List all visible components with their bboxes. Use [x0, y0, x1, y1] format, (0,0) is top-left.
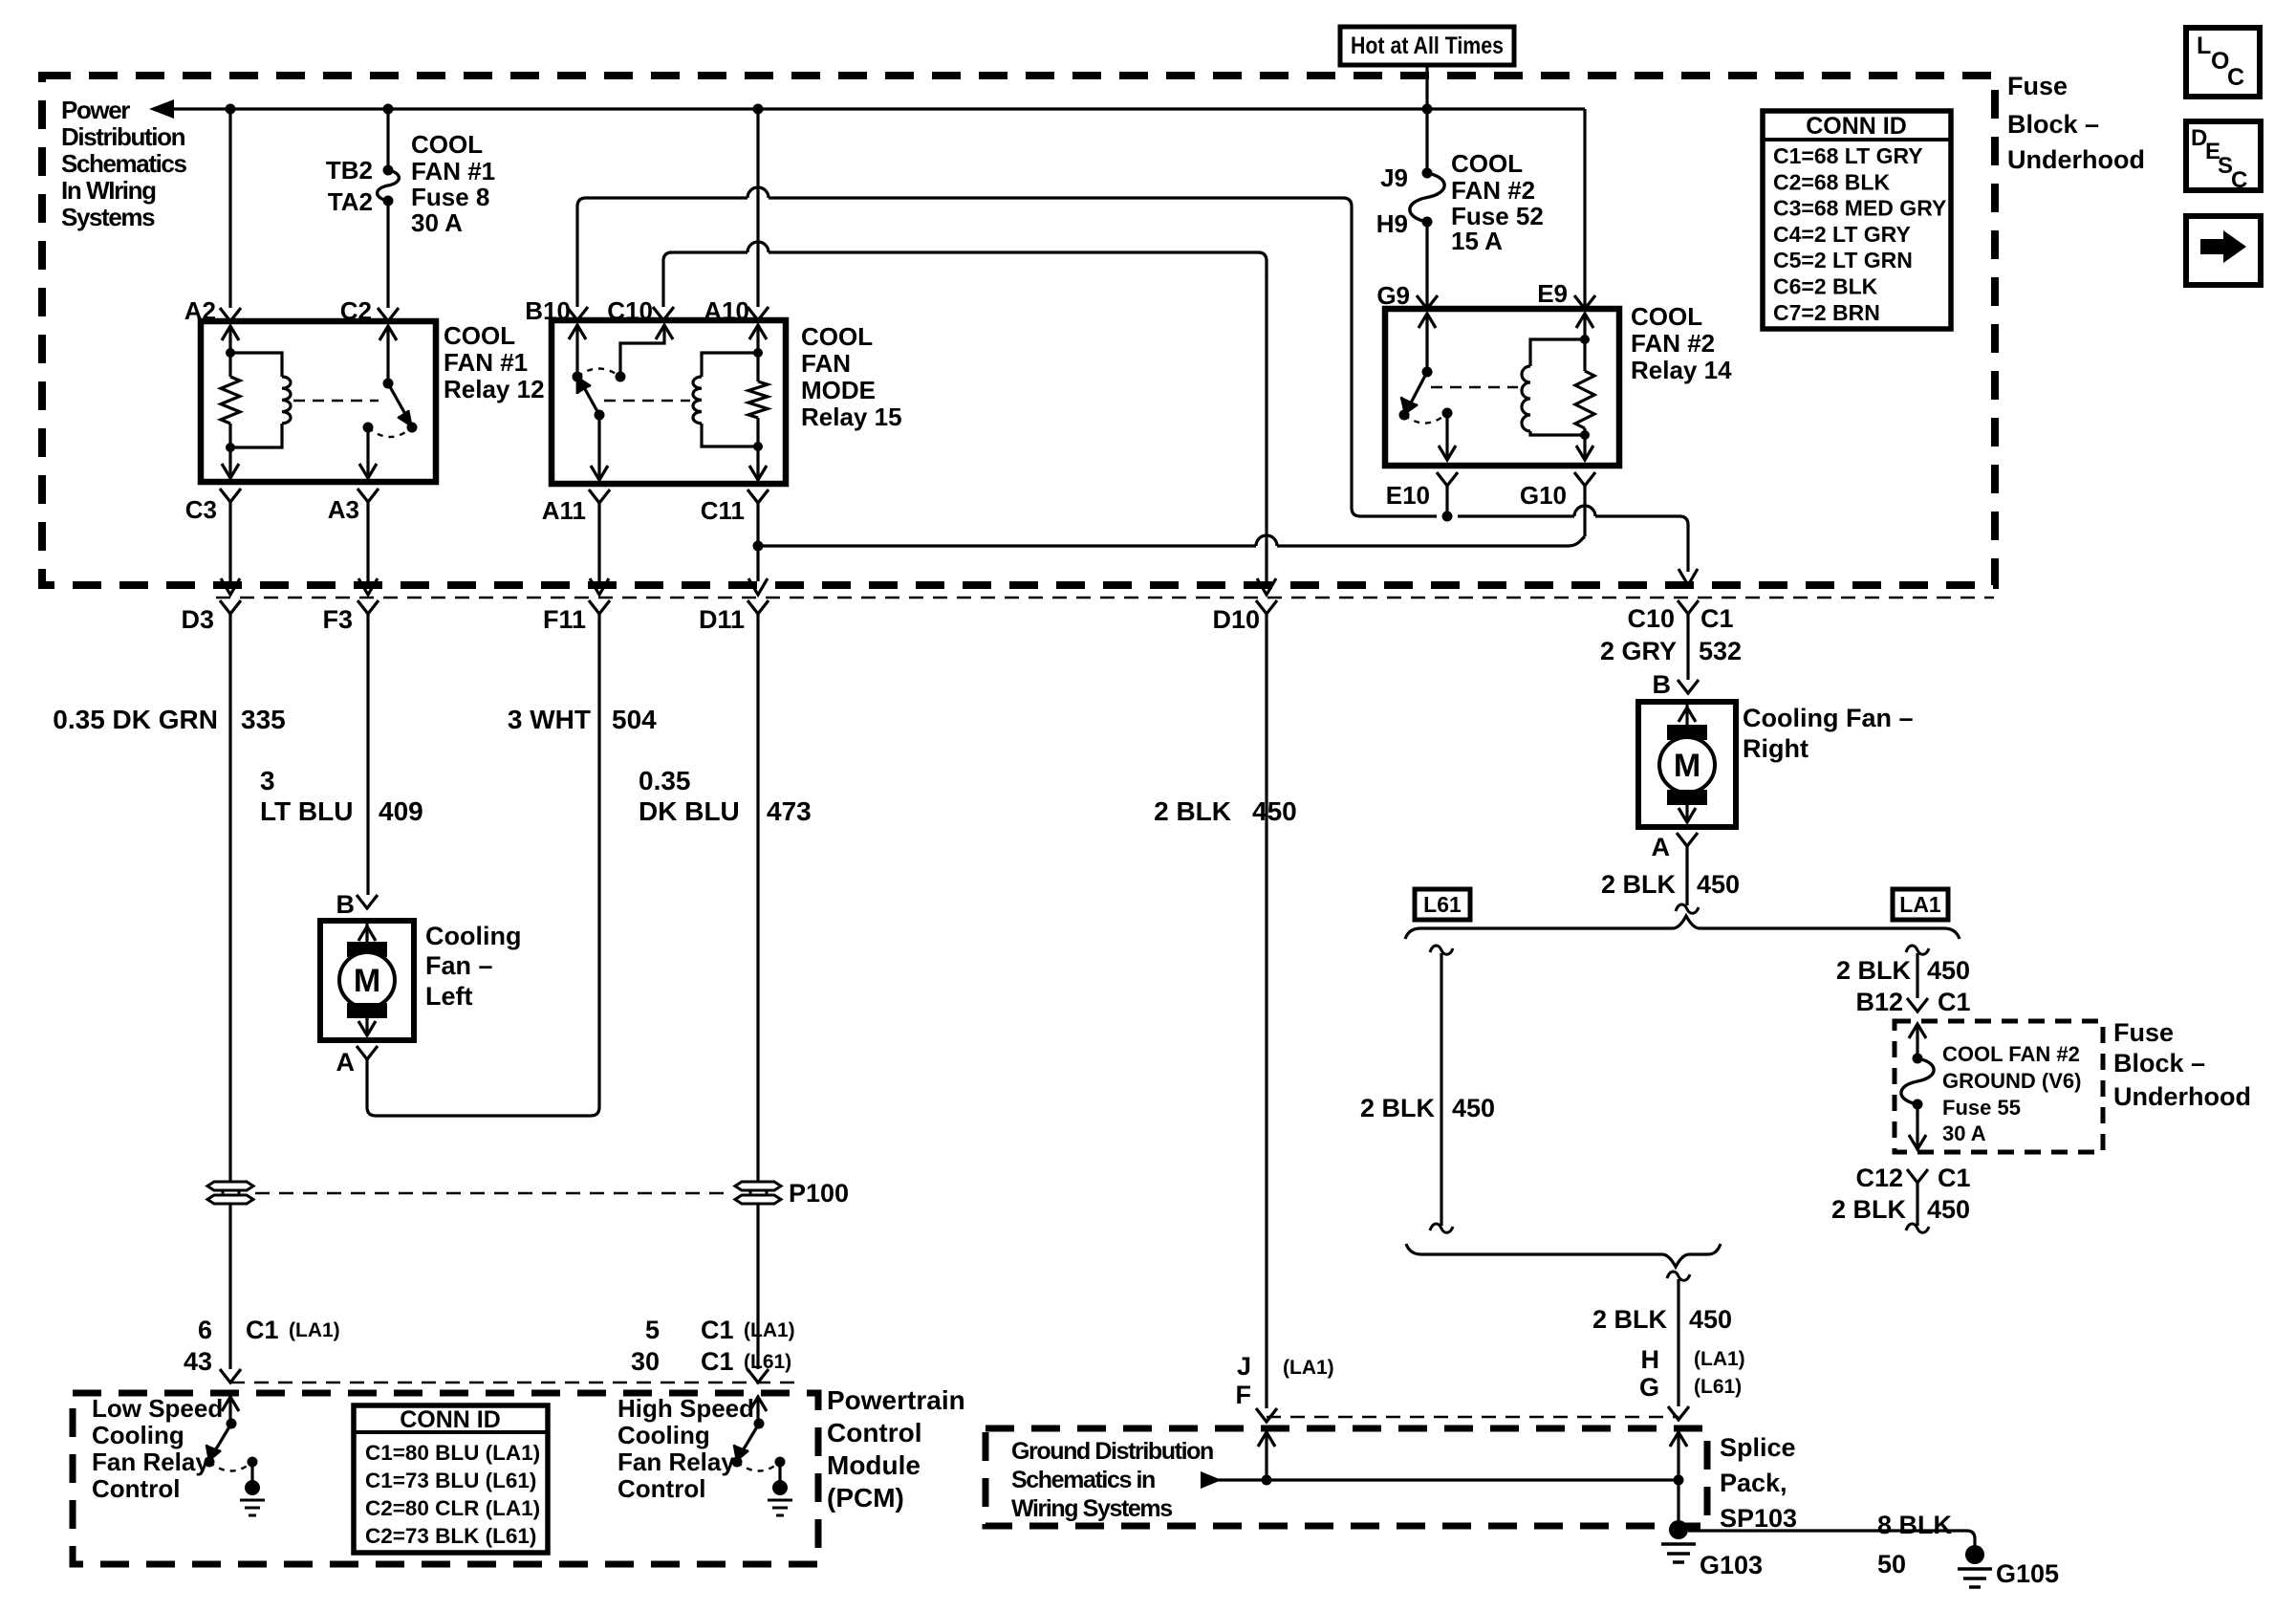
svg-text:B: B [336, 890, 356, 919]
label 2 BLK 450 splice [1592, 1305, 1732, 1334]
svg-text:473: 473 [767, 796, 812, 826]
svg-text:COOL: COOL [411, 130, 483, 159]
wire L61 branch [1440, 953, 1442, 1226]
svg-text:Schematics: Schematics [61, 149, 186, 178]
svg-text:C4=2 LT GRY: C4=2 LT GRY [1773, 222, 1911, 247]
svg-text:C: C [2231, 167, 2247, 193]
svg-text:2 BLK: 2 BLK [1836, 956, 1912, 985]
label B10 [525, 296, 571, 325]
label D10 [1212, 605, 1260, 634]
PCM high speed driver switch [732, 1397, 786, 1481]
wire fan left A to F11 [367, 613, 599, 1116]
svg-text:FAN #1: FAN #1 [444, 348, 528, 377]
svg-text:(PCM): (PCM) [827, 1483, 904, 1513]
svg-text:2 BLK: 2 BLK [1592, 1305, 1668, 1334]
wire C3 to D3 boundary [221, 502, 240, 595]
relay K15 switch common node B10 [573, 372, 583, 382]
label 2 BLK 450 fan right [1601, 870, 1740, 899]
wire D10 boundary [1257, 275, 1276, 595]
svg-text:504: 504 [612, 705, 657, 734]
svg-text:Control: Control [92, 1474, 180, 1503]
label G9 [1376, 281, 1410, 310]
svg-text:43: 43 [184, 1347, 212, 1376]
label Cooling Fan - Right [1743, 704, 1914, 763]
relay K14 coil top node [1580, 335, 1590, 344]
wire H9 to G9 [1425, 222, 1428, 307]
relay K15 pin C11 arrow [749, 446, 767, 480]
label P100 [789, 1179, 849, 1208]
harness squiggle fan right A [1676, 904, 1699, 913]
label A2 [184, 296, 216, 325]
connector fork B10 [567, 307, 588, 320]
wire P100 right to PCM 30 [756, 1204, 759, 1369]
relay K14 switch E10 node [1442, 408, 1453, 419]
connector fork fan left B [357, 895, 378, 908]
label TB2 [326, 156, 373, 185]
svg-text:Relay 15: Relay 15 [801, 403, 902, 431]
svg-text:C10: C10 [1627, 604, 1675, 633]
svg-text:G10: G10 [1520, 481, 1567, 510]
relay K12 mechanical link [293, 400, 379, 403]
label Low Speed Cooling Fan Relay Control [92, 1394, 223, 1503]
power bus wire [161, 107, 1585, 110]
label 0.35 DK BLU 473 [639, 766, 812, 826]
svg-text:Fuse: Fuse [2007, 72, 2068, 100]
wire LA1 branch to B12 [1916, 953, 1918, 998]
connector fork A3 [357, 489, 379, 502]
svg-text:M: M [354, 963, 380, 999]
label J [1237, 1352, 1251, 1381]
relay K14 coil [1522, 339, 1585, 435]
svg-text:D11: D11 [699, 605, 745, 634]
relay K14 mechanical link [1431, 386, 1518, 389]
relay K14 switch blade [1401, 372, 1427, 413]
svg-text:A11: A11 [542, 496, 586, 525]
connector fork fan left A [357, 1046, 378, 1059]
relay K15 pin A10 arrow [749, 325, 767, 353]
svg-text:B: B [1653, 670, 1672, 699]
svg-text:Cooling: Cooling [425, 922, 521, 950]
label H (LA1) [1641, 1345, 1745, 1374]
PCM connector boundary (thin dashed) [230, 1382, 799, 1383]
label C10 relay15 [607, 296, 653, 325]
connector fork C3 [220, 489, 241, 502]
connector fork E9 [1574, 295, 1595, 309]
svg-text:(LA1): (LA1) [1283, 1357, 1334, 1379]
svg-text:Low Speed: Low Speed [92, 1394, 223, 1423]
svg-text:(LA1): (LA1) [289, 1319, 340, 1341]
label B fan right [1653, 670, 1672, 699]
wire J F into ground box [1258, 1432, 1275, 1480]
fuse block connector boundary (thin dashed) [216, 597, 1994, 599]
motor fan left box [320, 921, 414, 1040]
relay K12 coil pin C3 arrow [222, 447, 239, 478]
svg-text:H: H [1641, 1345, 1660, 1374]
svg-text:Distribution: Distribution [61, 122, 185, 151]
svg-text:A3: A3 [328, 495, 359, 524]
svg-text:C7=2 BRN: C7=2 BRN [1773, 300, 1880, 325]
relay K12 switch blade [388, 383, 411, 425]
relay K14 switch common node [1422, 367, 1433, 378]
svg-text:L61: L61 [1423, 892, 1462, 917]
relay K12 coil top node [226, 348, 235, 358]
svg-text:J9: J9 [1380, 163, 1408, 192]
svg-text:A: A [336, 1048, 356, 1077]
connector fork C12 [1907, 1169, 1928, 1183]
wire bus to J9 [1425, 109, 1428, 173]
relay K12 box (COOL FAN #1 Relay 12) [201, 321, 436, 482]
svg-text:FAN #2: FAN #2 [1451, 176, 1535, 205]
svg-text:LT BLU: LT BLU [260, 796, 353, 826]
svg-text:C1: C1 [701, 1347, 734, 1376]
label High Speed Cooling Fan Relay Control [617, 1394, 754, 1503]
label 0.35 DK GRN 335 [53, 705, 285, 734]
relay K14 box (COOL FAN #2 Relay 14) [1385, 309, 1619, 466]
label Ground Distribution Schematics in Wiring Systems [1011, 1438, 1213, 1522]
ground G105 symbol [1958, 1545, 1992, 1587]
svg-text:F3: F3 [322, 605, 353, 634]
svg-text:C2=73 BLK (L61): C2=73 BLK (L61) [365, 1524, 536, 1548]
svg-text:Splice: Splice [1720, 1433, 1796, 1462]
svg-text:L: L [2197, 33, 2211, 59]
connector fork fan right B [1678, 680, 1699, 693]
svg-text:TB2: TB2 [326, 156, 373, 185]
harness squiggle LA1 bottom [1906, 1224, 1929, 1232]
connector fork C10 top [653, 307, 674, 320]
svg-text:C1: C1 [1938, 1164, 1971, 1192]
label G103 [1700, 1551, 1763, 1579]
label J9 [1380, 163, 1408, 192]
ground symbol PCM low speed [240, 1480, 265, 1515]
motor fan right box [1638, 702, 1736, 827]
wire bus to relay12 A2 [228, 109, 231, 308]
motor fan left symbol [339, 921, 395, 1035]
harness bracket bottom (underbrace) [1406, 1244, 1721, 1267]
relay K15 coil [693, 353, 758, 446]
svg-text:M: M [1674, 748, 1700, 784]
svg-text:Module: Module [827, 1450, 921, 1480]
wire F3 to fan left B [366, 613, 369, 895]
connector fork C11 [747, 490, 769, 503]
svg-text:2 BLK: 2 BLK [1360, 1094, 1436, 1122]
svg-text:D10: D10 [1212, 605, 1260, 634]
harness squiggle splice top [1667, 1272, 1690, 1280]
wire E10 to bus [1445, 486, 1448, 516]
svg-text:FAN: FAN [801, 349, 851, 378]
svg-text:450: 450 [1452, 1094, 1495, 1122]
connector fork A11 [589, 490, 610, 503]
wire G103 to G105 [1688, 1531, 1975, 1547]
junction node fuse52 bus [1422, 104, 1433, 115]
wire E10 bus to C1 drop [1458, 506, 1688, 572]
terminal fuse55 bottom dot [1913, 1099, 1923, 1110]
junction node C11 [753, 541, 764, 552]
svg-text:COOL: COOL [444, 321, 515, 350]
svg-text:8 BLK: 8 BLK [1877, 1511, 1953, 1539]
svg-text:A: A [1652, 833, 1671, 861]
svg-text:450: 450 [1697, 870, 1740, 899]
svg-text:Cooling Fan –: Cooling Fan – [1743, 704, 1914, 732]
svg-text:F11: F11 [543, 605, 586, 634]
label B12 C1 [1855, 988, 1970, 1016]
label A fan right [1652, 833, 1671, 861]
svg-text:0.35: 0.35 [639, 766, 691, 795]
ground G103 symbol [1661, 1520, 1696, 1562]
svg-text:450: 450 [1927, 956, 1970, 985]
connector fork G9 [1417, 295, 1438, 309]
wire fan right A down [1685, 846, 1688, 905]
relay K15 contact C10 path [620, 328, 664, 377]
connector fork A10 [747, 307, 769, 320]
svg-text:Left: Left [425, 982, 473, 1011]
tag L61 [1415, 889, 1470, 920]
wire splice pack feed [1677, 1279, 1679, 1406]
svg-text:DK BLU: DK BLU [639, 796, 740, 826]
label 3 LT BLU 409 [260, 766, 423, 826]
svg-text:50: 50 [1877, 1550, 1906, 1578]
wire bus to TB2 [386, 109, 389, 170]
svg-text:2 BLK: 2 BLK [1601, 870, 1677, 899]
label COOL FAN #2 GROUND fuse 55 [1942, 1042, 2081, 1145]
wire D3 to P100 [228, 613, 231, 1182]
junction node J F ground bus [1262, 1475, 1272, 1486]
fuse block label Fuse Block - Underhood [2007, 72, 2145, 174]
svg-text:Fuse 55: Fuse 55 [1942, 1096, 2021, 1120]
svg-text:COOL FAN #2: COOL FAN #2 [1942, 1042, 2080, 1066]
wire bus corner to E9 [1583, 109, 1586, 307]
label 3 WHT 504 [508, 705, 657, 734]
svg-text:C12: C12 [1855, 1164, 1903, 1192]
connector fork D3 [220, 600, 241, 614]
relay K15 coil top node [753, 348, 763, 358]
label (LA1) J F [1283, 1357, 1334, 1379]
relay K12 switch A3 node [363, 423, 374, 433]
label 43 [184, 1347, 212, 1376]
motor fan right symbol [1659, 702, 1715, 822]
svg-text:B10: B10 [525, 296, 571, 325]
svg-text:0.35 DK GRN: 0.35 DK GRN [53, 705, 218, 734]
svg-text:6: 6 [198, 1316, 212, 1344]
svg-text:C3=68 MED GRY: C3=68 MED GRY [1773, 196, 1946, 221]
svg-text:(LA1): (LA1) [1694, 1348, 1745, 1370]
wire C10 riser to D10 [663, 242, 1267, 307]
tag LA1 [1893, 889, 1948, 920]
svg-text:(L61): (L61) [1694, 1376, 1742, 1398]
label COOL FAN #1 Fuse 8 30 A [411, 130, 495, 237]
fuse F8 element [378, 170, 400, 201]
connector fork B12 [1907, 998, 1928, 1012]
svg-text:C1: C1 [1938, 988, 1971, 1016]
svg-text:C: C [2227, 64, 2244, 91]
svg-text:532: 532 [1699, 637, 1742, 665]
label C12 C1 [1855, 1164, 1970, 1192]
label COOL FAN #2 Fuse 52 15 A [1451, 149, 1544, 255]
CONN ID table (fuse block) [1763, 111, 1951, 329]
relay K14 switch pin G9 arrow [1419, 314, 1436, 372]
relay K12 resistor [221, 353, 240, 447]
relay K15 pin A11 arrow [591, 415, 608, 480]
svg-text:Pack,: Pack, [1720, 1469, 1787, 1497]
svg-text:409: 409 [379, 796, 423, 826]
label G105 [1996, 1559, 2059, 1588]
svg-text:Right: Right [1743, 734, 1809, 763]
svg-text:Block –: Block – [2113, 1049, 2205, 1078]
wire G10 down [1583, 486, 1586, 536]
connector fork PCM 43 [220, 1369, 241, 1382]
terminal fuse55 top dot [1913, 1054, 1923, 1064]
ground symbol PCM high speed [768, 1480, 792, 1515]
connector fork H G [1668, 1406, 1689, 1420]
svg-text:C5=2 LT GRN: C5=2 LT GRN [1773, 248, 1913, 272]
svg-text:3: 3 [260, 766, 275, 795]
relay K15 coil bottom node [753, 442, 763, 451]
label 30 C1 (L61) right [631, 1347, 791, 1376]
svg-text:Powertrain: Powertrain [827, 1385, 965, 1415]
hop G10 bus over D10 [1256, 535, 1277, 546]
connector fork J F [1256, 1408, 1277, 1422]
svg-text:C1: C1 [246, 1316, 279, 1344]
relay K12 label [444, 321, 545, 403]
relay K14 pin E10 arrow [1439, 413, 1456, 460]
svg-text:450: 450 [1252, 796, 1297, 826]
svg-text:2 BLK: 2 BLK [1154, 796, 1231, 826]
junction node E10 bus [1442, 512, 1453, 522]
wire C11 to D11 boundary [748, 503, 768, 595]
svg-text:Control: Control [617, 1474, 705, 1503]
relay K12 switch contact node [407, 423, 418, 433]
svg-text:CONN ID: CONN ID [400, 1406, 501, 1433]
svg-text:LA1: LA1 [1899, 892, 1941, 917]
relay K14 pin G10 arrow [1576, 435, 1593, 460]
label E9 [1537, 279, 1568, 308]
connector P100 right [735, 1182, 781, 1204]
svg-text:J: J [1237, 1352, 1251, 1381]
relay K14 label [1631, 302, 1732, 384]
svg-text:P100: P100 [789, 1179, 849, 1208]
harness squiggle LA1 top [1906, 946, 1929, 954]
label A10 [704, 296, 749, 325]
connector fork F3 [357, 600, 379, 614]
label Splice Pack SP103 [1720, 1433, 1797, 1533]
svg-text:E9: E9 [1537, 279, 1568, 308]
wire A10 riser [756, 109, 759, 307]
label D3 [181, 605, 214, 634]
svg-text:Power: Power [61, 96, 130, 124]
wire G10 bus to C11 [758, 536, 1585, 546]
label 6 C1 (LA1) left [198, 1316, 340, 1344]
svg-text:30 A: 30 A [1942, 1121, 1986, 1145]
svg-text:(LA1): (LA1) [744, 1319, 795, 1341]
harness bracket top (overbrace) [1405, 916, 1960, 939]
label 50 [1877, 1550, 1906, 1578]
svg-text:C10: C10 [607, 296, 653, 325]
svg-text:Block –: Block – [2007, 110, 2099, 139]
fuse F52 element [1410, 173, 1444, 222]
svg-text:Relay 12: Relay 12 [444, 375, 545, 403]
label Cooling Fan - Left [425, 922, 521, 1011]
label A3 [328, 495, 359, 524]
svg-text:C2=80 CLR (LA1): C2=80 CLR (LA1) [365, 1496, 540, 1520]
connector fork D11 [747, 600, 769, 614]
svg-text:CONN ID: CONN ID [1806, 113, 1907, 140]
terminal J9 dot [1422, 168, 1433, 179]
wire B10 riser to E10 bus [577, 187, 1437, 516]
svg-text:C1=80 BLU (LA1): C1=80 BLU (LA1) [365, 1441, 540, 1465]
svg-text:B12: B12 [1855, 988, 1903, 1016]
fuse F55 element [1901, 1058, 1934, 1104]
relay K12 coil [230, 353, 291, 447]
fuse F55 lower wire [1909, 1104, 1926, 1149]
relay K12 switch common node [383, 379, 394, 389]
label F11 [543, 605, 586, 634]
label F [1236, 1381, 1252, 1409]
fuse block (fuse 55) dashed box [1895, 1021, 2103, 1152]
svg-text:TA2: TA2 [328, 187, 373, 216]
label H9 [1376, 209, 1408, 238]
label 2 GRY 532 [1600, 637, 1742, 665]
svg-text:C6=2 BLK: C6=2 BLK [1773, 274, 1878, 299]
svg-text:FAN #2: FAN #2 [1631, 329, 1715, 358]
label G10 [1520, 481, 1567, 510]
svg-text:G103: G103 [1700, 1551, 1763, 1579]
svg-text:G105: G105 [1996, 1559, 2059, 1588]
svg-text:GROUND (V6): GROUND (V6) [1942, 1069, 2081, 1093]
wire below C12 [1916, 1183, 1918, 1226]
harness squiggle L61 top [1430, 946, 1453, 954]
label 2 BLK 450 (D10) [1154, 796, 1297, 826]
connector fork C2 [378, 308, 399, 321]
connector fork D10 [1256, 600, 1277, 614]
wire A3 to F3 boundary [358, 502, 378, 595]
svg-text:SP103: SP103 [1720, 1504, 1797, 1533]
label A fan left [336, 1048, 356, 1077]
junction node C2 bus [383, 104, 394, 115]
connector fork E10 [1437, 472, 1458, 486]
svg-text:C11: C11 [701, 496, 745, 525]
svg-text:450: 450 [1927, 1195, 1970, 1224]
DESC icon box [2186, 121, 2261, 193]
relay K15 switch A11 node [595, 410, 605, 421]
relay K14 pin E9 arrow [1576, 314, 1593, 339]
PCM low speed driver switch [205, 1397, 258, 1481]
wire from Hot at All Times to bus [1425, 65, 1428, 109]
LOC icon box [2186, 28, 2260, 97]
wire A11 to F11 boundary [590, 503, 609, 595]
svg-text:Ground Distribution: Ground Distribution [1011, 1438, 1213, 1465]
svg-text:Wiring Systems: Wiring Systems [1011, 1495, 1172, 1522]
arrow C1 drop [1679, 569, 1698, 585]
relay K15 resistor [748, 353, 768, 446]
svg-text:In WIring: In WIring [61, 176, 156, 205]
label C2 [340, 296, 372, 325]
fuse block underhood dashed boundary box [42, 76, 1995, 585]
svg-text:C1: C1 [1700, 604, 1734, 633]
wire H G into ground box [1670, 1432, 1687, 1530]
wire C1 to fan right B [1686, 613, 1689, 680]
terminal TB2 dot [383, 165, 394, 176]
svg-text:E10: E10 [1386, 481, 1430, 510]
wire D11 to P100 [756, 613, 759, 1182]
forward arrow icon box [2186, 216, 2261, 285]
svg-text:G: G [1639, 1373, 1659, 1402]
label C10 C1 [1627, 604, 1733, 633]
svg-text:Fan Relay: Fan Relay [617, 1448, 735, 1476]
label C3 [185, 495, 217, 524]
relay K14 switch travel arc [1404, 413, 1447, 424]
label G (L61) [1639, 1373, 1742, 1402]
dashed link P100 [255, 1192, 733, 1194]
svg-text:Underhood: Underhood [2007, 145, 2145, 174]
